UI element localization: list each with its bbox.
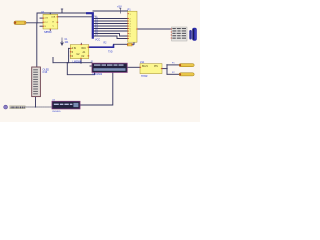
- svg-text:PIN: PIN: [154, 66, 158, 68]
- svg-text:1 B: 1 B: [45, 18, 49, 20]
- svg-text:0.96: 0.96: [43, 71, 48, 74]
- svg-text:U1: U1: [41, 10, 45, 14]
- svg-text:U2A: U2A: [51, 15, 56, 18]
- svg-text:TXD: TXD: [108, 51, 113, 53]
- svg-text:R16: R16: [82, 48, 87, 50]
- svg-text:S8550: S8550: [44, 30, 52, 34]
- svg-text:VCC: VCC: [95, 38, 100, 41]
- svg-text:2 C: 2 C: [45, 22, 49, 24]
- svg-text:LCD1602: LCD1602: [92, 73, 103, 76]
- svg-text:CH340G: CH340G: [52, 111, 61, 113]
- svg-text:LM358A: LM358A: [73, 60, 82, 63]
- svg-text:BUZ1: BUZ1: [142, 66, 149, 68]
- svg-text:LS1: LS1: [140, 61, 145, 64]
- svg-text:P1: P1: [128, 7, 132, 11]
- svg-text:+5V: +5V: [117, 5, 122, 9]
- svg-text:HYDZ: HYDZ: [141, 75, 148, 78]
- svg-text:2 IN: 2 IN: [72, 48, 77, 50]
